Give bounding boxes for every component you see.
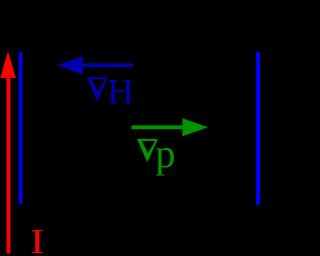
svg-text:I: I (30, 223, 44, 256)
svg-text:p: p (155, 131, 175, 176)
svg-text:H: H (107, 71, 134, 111)
